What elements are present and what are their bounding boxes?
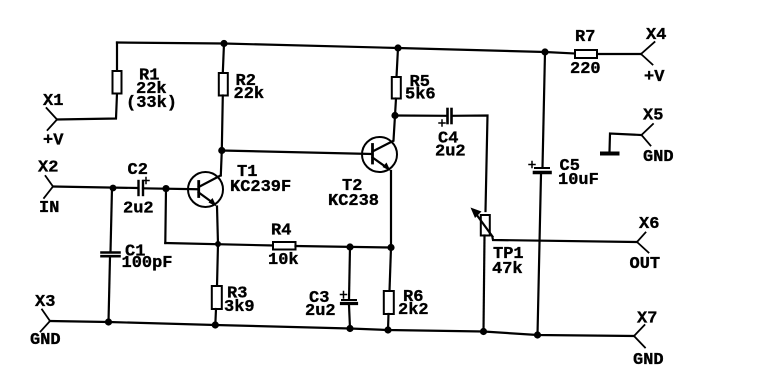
wire: bottom ground rail (50, 321, 634, 336)
junction: R4/T2 emitter (387, 244, 394, 251)
resistor R5 (392, 77, 401, 99)
capacitor C1 (102, 253, 120, 257)
resistor R7 (575, 50, 597, 58)
svg-text:X7: X7 (637, 310, 657, 329)
svg-text:2u2: 2u2 (123, 200, 154, 219)
svg-text:2k2: 2k2 (398, 301, 429, 320)
svg-text:KC238: KC238 (328, 192, 379, 211)
wire: R2 bottom (222, 96, 223, 151)
junction: R6/bottom rail (384, 326, 391, 333)
svg-text:2u2: 2u2 (305, 302, 336, 321)
terminal X2 (44, 176, 53, 198)
wire: R6 top (390, 248, 392, 292)
svg-text:GND: GND (643, 148, 674, 167)
svg-text:(33k): (33k) (126, 94, 177, 113)
resistor R2 (219, 73, 228, 96)
svg-text:47k: 47k (492, 260, 523, 279)
junction: C5/bottom rail (534, 331, 541, 338)
svg-text:10k: 10k (268, 251, 299, 270)
svg-text:R4: R4 (271, 222, 291, 241)
wire: C1 to bottom rail (109, 257, 111, 322)
label C2 plus (143, 178, 149, 184)
junction: T1 collector / T2 base (218, 147, 225, 154)
transistor T2 (362, 137, 397, 172)
wire: R1 top to rail (116, 43, 118, 72)
junction: C3/bottom rail (346, 325, 353, 332)
svg-text:+V: +V (43, 132, 64, 151)
junction: IN/C1 (110, 185, 117, 192)
wire: top +V rail (117, 43, 575, 54)
wire: R4 right (296, 246, 392, 248)
wire: T2 emitter (390, 171, 392, 248)
capacitor C3 (342, 300, 357, 304)
wire: C1 branch (111, 188, 113, 252)
junction: R5/C4/T2 collector (391, 112, 398, 119)
label C4 plus (439, 120, 445, 126)
svg-text:22k: 22k (234, 85, 265, 104)
svg-text:X3: X3 (35, 293, 55, 312)
svg-text:GND: GND (30, 331, 61, 350)
svg-text:2u2: 2u2 (435, 143, 466, 162)
svg-text:3k9: 3k9 (224, 298, 255, 317)
junction: TP1/bottom rail (480, 328, 487, 335)
ground: X5 (602, 152, 618, 156)
svg-text:OUT: OUT (630, 255, 661, 274)
svg-text:IN: IN (39, 199, 59, 218)
resistor R6 (384, 291, 394, 314)
resistor R4 (273, 242, 296, 250)
resistor R1 (113, 71, 122, 94)
wire: R7 to X4 (597, 53, 641, 55)
terminal X1 (47, 108, 58, 130)
wire: X5 to ground (610, 134, 642, 152)
terminal X6 (637, 233, 649, 253)
svg-text:X5: X5 (643, 107, 663, 126)
svg-text:X6: X6 (639, 215, 659, 234)
label C5 plus (529, 162, 535, 168)
svg-text:R7: R7 (575, 28, 595, 47)
terminal X3 (41, 310, 51, 332)
capacitor C2 (139, 181, 144, 195)
wire: R1 bottom to corner (57, 94, 117, 120)
svg-text:5k6: 5k6 (405, 86, 436, 105)
wire: R6 bottom (387, 314, 390, 330)
wire: R3 top (217, 244, 218, 286)
svg-text:X4: X4 (646, 26, 666, 45)
junction: R4/C3 (346, 243, 353, 250)
potentiometer TP1 (471, 208, 493, 237)
wire: T1 collector (221, 151, 222, 176)
junction: rail/R2 (220, 40, 227, 47)
svg-text:220: 220 (570, 60, 601, 79)
junction: base/R4 node (162, 185, 169, 192)
wire: R4 left (165, 243, 273, 246)
wire: R3 bottom (214, 309, 217, 325)
wire: junction to C4 (395, 114, 446, 117)
wire: node to T2 base (222, 151, 372, 155)
terminal X7 (634, 325, 645, 348)
svg-text:100pF: 100pF (122, 254, 173, 273)
svg-text:GND: GND (633, 351, 664, 370)
wire: TP1 to bottom rail (484, 236, 485, 332)
wire: T2 collector (394, 116, 396, 141)
label C3 plus (341, 292, 347, 299)
wire: C3 to bottom rail (349, 305, 350, 329)
junction: rail/C5 (541, 48, 548, 55)
wire: T1 emitter (217, 207, 218, 245)
resistor R3 (212, 286, 222, 309)
capacitor C5 (535, 168, 551, 173)
wire: C4 to TP1 (452, 116, 488, 212)
wire: C2 to T1 base (143, 187, 198, 190)
wire: R5 bottom (395, 99, 396, 116)
wire: R4 node vertical (164, 189, 167, 243)
svg-text:10uF: 10uF (558, 171, 599, 190)
transistor T1 (188, 172, 223, 207)
wire: R5 top (397, 48, 399, 77)
svg-text:X2: X2 (38, 159, 58, 178)
wire: TP1 wiper to X6 (493, 238, 638, 243)
svg-text:KC239F: KC239F (230, 178, 291, 197)
wire: X2 to C2 (53, 187, 137, 189)
junction: rail/R5 (394, 44, 401, 51)
junction: R3/bottom rail (212, 321, 219, 328)
svg-text:C2: C2 (128, 161, 148, 180)
wire: C5 bottom (538, 174, 542, 335)
wire: C3 branch top (349, 247, 350, 300)
terminal X5 (642, 124, 654, 146)
svg-text:+V: +V (644, 68, 665, 87)
svg-text:X1: X1 (43, 92, 63, 111)
junction: emitter/R4 (215, 241, 221, 247)
junction: C1/bottom rail (105, 318, 112, 325)
wire: C5 top (543, 52, 546, 168)
capacitor C4 (448, 109, 452, 123)
terminal X4 (641, 42, 655, 65)
wire: R2 top (223, 44, 224, 74)
